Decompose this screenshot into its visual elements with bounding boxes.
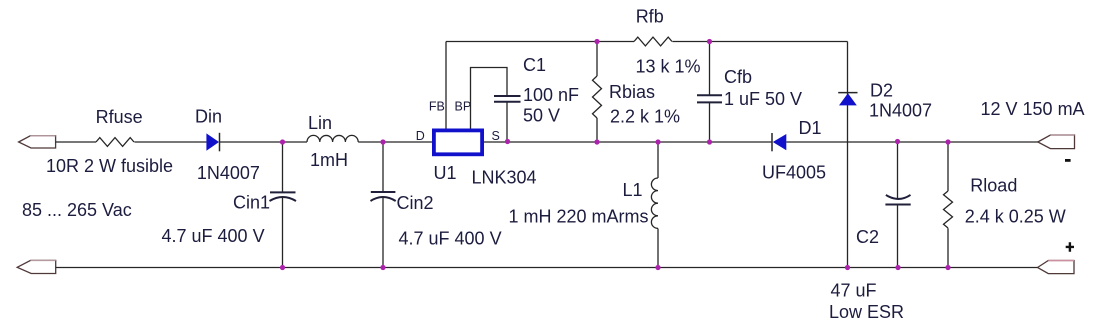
wire feedback top rail right: [672, 41, 847, 43]
resistor Rfb: [634, 37, 672, 46]
capacitor Cin1: [270, 192, 297, 201]
svg-text:12 V 150 mA: 12 V 150 mA: [981, 99, 1085, 119]
wire C2 bottom stub: [897, 205, 899, 268]
junction D2 line bottom: [845, 265, 850, 270]
input connector bottom: [17, 260, 56, 273]
svg-text:1 mH 220 mArms: 1 mH 220 mArms: [509, 206, 649, 226]
capacitor C2: [885, 195, 910, 205]
diode D2: [838, 93, 857, 106]
resistor Rfuse: [96, 138, 134, 147]
capacitor C1: [494, 96, 521, 102]
svg-text:1mH: 1mH: [310, 150, 348, 170]
wire L1 bottom stub: [657, 229, 659, 268]
wire D2 vertical from top rail to bottom rail: [847, 42, 849, 268]
junction C2 top: [895, 139, 900, 144]
wire Cfb top stub: [709, 42, 711, 96]
wire Rload bottom stub: [947, 228, 949, 267]
wire FB riser: [445, 42, 447, 129]
svg-text:1N4007: 1N4007: [869, 101, 932, 121]
svg-text:C1: C1: [523, 55, 546, 75]
svg-text:BP: BP: [455, 100, 472, 114]
op-amp/IC U1 LNK304 body: [434, 130, 482, 154]
wire Cin1 top stub: [282, 142, 284, 192]
svg-text:Din: Din: [195, 107, 222, 127]
wire Cin1 bottom stub: [282, 197, 284, 268]
junction Cin1 bottom: [280, 265, 285, 270]
svg-text:Low ESR: Low ESR: [829, 302, 904, 322]
svg-text:C2: C2: [856, 227, 879, 247]
svg-text:Cin1: Cin1: [233, 193, 270, 213]
svg-text:D1: D1: [799, 118, 822, 138]
junction Rbias bottom: [594, 139, 599, 144]
svg-text:4.7 uF 400 V: 4.7 uF 400 V: [162, 226, 265, 246]
diode Din: [206, 133, 219, 152]
svg-text:1N4007: 1N4007: [197, 163, 260, 183]
svg-text:Rload: Rload: [970, 176, 1017, 196]
wire Cin2 bottom stub: [382, 197, 384, 268]
label minus terminal: [1065, 159, 1071, 162]
svg-text:Rbias: Rbias: [609, 82, 655, 102]
svg-text:47 uF: 47 uF: [831, 281, 877, 301]
svg-text:85 ... 265 Vac: 85 ... 265 Vac: [22, 200, 132, 220]
wire L1 top stub: [657, 142, 659, 178]
svg-text:UF4005: UF4005: [762, 163, 826, 183]
svg-text:Cin2: Cin2: [397, 193, 434, 213]
wire Cin2 top stub: [382, 142, 384, 192]
inductor Lin: [307, 135, 358, 142]
wire U1 pin S to D1: [484, 141, 772, 143]
junction Rload top: [945, 139, 950, 144]
wire Din to Lin: [220, 141, 308, 143]
svg-text:L1: L1: [623, 180, 643, 200]
svg-text:FB: FB: [429, 100, 445, 114]
output connector bottom: [1038, 261, 1075, 274]
wire C2 top stub: [897, 142, 899, 199]
wire Rbias bottom stub: [596, 118, 598, 142]
svg-text:2.4 k 0.25 W: 2.4 k 0.25 W: [965, 207, 1066, 227]
svg-text:Rfuse: Rfuse: [96, 107, 143, 127]
wire D1 to output connector: [786, 141, 1038, 143]
junction Cin2 top: [380, 139, 385, 144]
wire Rfuse to Din: [134, 141, 206, 143]
wire C1 to S node: [506, 102, 508, 142]
svg-text:U1: U1: [434, 163, 457, 183]
junction Cfb top: [707, 39, 712, 44]
inductor L1: [651, 178, 658, 228]
diode D1: [772, 133, 786, 151]
junction Rbias top: [594, 39, 599, 44]
svg-text:10R 2 W fusible: 10R 2 W fusible: [46, 156, 173, 176]
junction Cfb bottom: [707, 139, 712, 144]
svg-text:50 V: 50 V: [523, 105, 560, 125]
junction L1 bottom: [655, 265, 660, 270]
wire feedback top rail left: [446, 41, 634, 43]
wire Rbias top stub: [596, 42, 598, 77]
capacitor Cfb: [697, 95, 722, 102]
wire input to Rfuse: [56, 141, 96, 143]
svg-text:Rfb: Rfb: [636, 6, 664, 26]
resistor Rbias: [593, 76, 602, 118]
capacitor Cin2: [371, 192, 396, 201]
svg-text:Cfb: Cfb: [724, 67, 752, 87]
junction C2 bottom: [895, 265, 900, 270]
resistor Rload: [944, 191, 953, 228]
junction L1 top: [655, 139, 660, 144]
junction Cin2 bottom: [380, 265, 385, 270]
wire BP riser: [471, 68, 508, 129]
wire bottom rail: [56, 267, 1038, 269]
junction Cin1 top: [280, 139, 285, 144]
wire Lin to U1 pin D: [358, 141, 432, 143]
svg-text:13 k 1%: 13 k 1%: [636, 57, 701, 77]
svg-text:D2: D2: [870, 81, 893, 101]
label plus terminal: [1066, 242, 1074, 251]
wire Cfb bottom stub: [709, 102, 711, 142]
junction Rload bottom: [945, 265, 950, 270]
junction C1 at S node: [505, 139, 510, 144]
svg-text:S: S: [492, 129, 500, 143]
wire Rload top stub: [947, 142, 949, 191]
svg-text:D: D: [416, 129, 425, 143]
svg-text:1 uF 50 V: 1 uF 50 V: [724, 89, 802, 109]
output connector top: [1038, 135, 1075, 149]
input connector top: [19, 136, 56, 148]
svg-text:LNK304: LNK304: [472, 167, 537, 187]
svg-text:4.7 uF 400 V: 4.7 uF 400 V: [399, 228, 502, 248]
svg-text:100 nF: 100 nF: [523, 85, 579, 105]
svg-text:2.2 k 1%: 2.2 k 1%: [610, 106, 680, 126]
svg-text:Lin: Lin: [308, 113, 332, 133]
